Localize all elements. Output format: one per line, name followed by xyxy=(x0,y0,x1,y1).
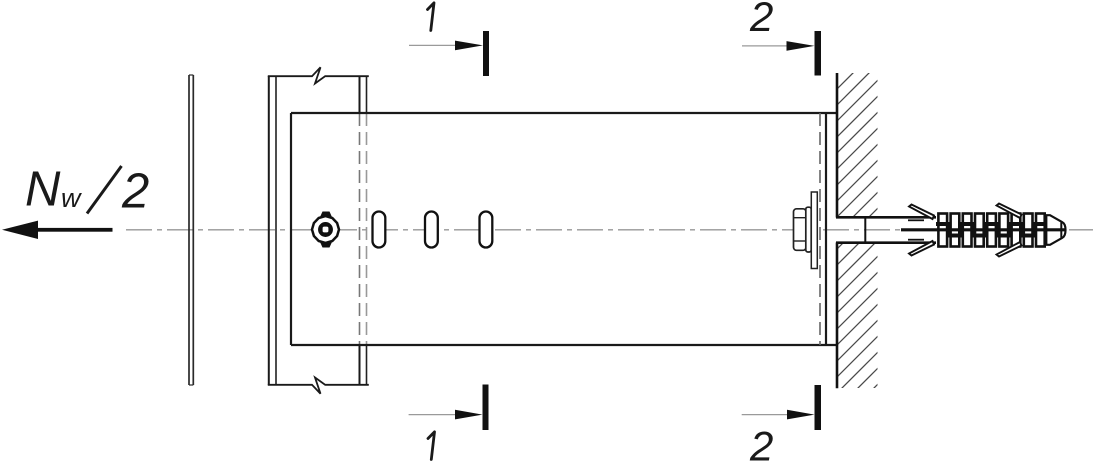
steel plate (edge view, left) xyxy=(189,75,193,385)
bracket plate outline xyxy=(291,113,837,345)
right flange inner: solid outside bracket xyxy=(359,76,361,113)
plug tip xyxy=(1046,215,1065,245)
section mark 1 (top): leader, arrowhead, cut bar, label xyxy=(409,3,489,76)
collar steps at plug mouth xyxy=(908,219,924,221)
centerline (horizontal dash-dot axis) xyxy=(126,229,1093,231)
anti-rotation barbs (second pair) xyxy=(997,204,1022,257)
label Nw/2 xyxy=(25,163,149,219)
load arrow Nw/2 xyxy=(2,221,113,239)
anti-rotation barbs (first pair) xyxy=(909,205,934,256)
svg-text:w: w xyxy=(61,183,82,213)
hidden edge (dashed) near end plate xyxy=(819,113,821,345)
svg-text:2: 2 xyxy=(749,423,773,462)
section mark 2 (bottom): leader, arrowhead, cut bar, label xyxy=(742,385,821,462)
right flange outer: solid outside bracket xyxy=(366,76,368,113)
wall face line xyxy=(836,73,839,388)
right flange inner: hidden dashed inside bracket xyxy=(359,113,361,345)
svg-text:2: 2 xyxy=(121,165,149,219)
svg-text:N: N xyxy=(25,163,61,217)
right flange outer: hidden dashed inside bracket xyxy=(366,113,368,345)
bolt shank hidden inside plug (thick) xyxy=(901,228,1066,231)
washer under head xyxy=(806,207,811,252)
wall hatching xyxy=(810,0,910,462)
slotted hole 3 xyxy=(480,212,493,248)
channel bottom edge with break symbol xyxy=(268,378,369,394)
section mark 1 (bottom): leader, arrowhead, cut bar, label xyxy=(409,385,489,460)
expansion plug ribbed body xyxy=(936,214,1052,247)
left flange outer xyxy=(268,76,270,385)
square bearing plate (edge view) xyxy=(811,192,817,269)
left flange inner xyxy=(275,76,277,385)
channel top edge with break symbol xyxy=(268,67,369,83)
anchor sleeve shaft through wall xyxy=(836,217,936,242)
channel profile (vertical, with break symbols) xyxy=(268,67,369,393)
meander mid bar xyxy=(936,224,1052,236)
svg-text:2: 2 xyxy=(749,0,773,40)
anchor bolt hex head (side view) xyxy=(794,192,818,269)
slotted hole 2 xyxy=(425,212,438,248)
slotted hole 1 xyxy=(373,212,386,248)
hex nut with bolt (front view) xyxy=(312,212,339,248)
section mark 2 (top): leader, arrowhead, cut bar, label xyxy=(742,0,821,76)
